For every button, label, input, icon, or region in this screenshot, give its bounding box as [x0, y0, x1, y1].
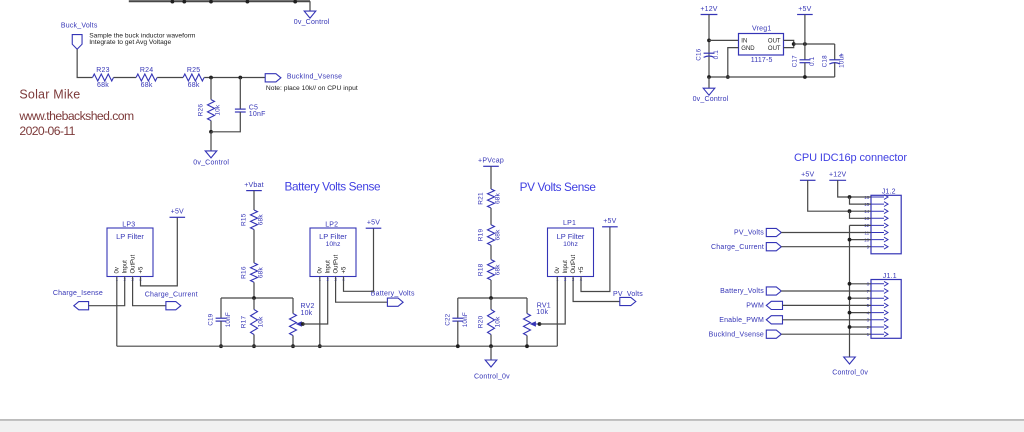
RV1 wiper arrow [531, 322, 540, 326]
wire +12V down to rail [708, 15, 710, 78]
svg-text:68k: 68k [188, 82, 200, 89]
wire LP3 output to Charge_Current port [133, 277, 166, 306]
svg-text:Solar Mike: Solar Mike [19, 88, 80, 102]
wire ground bus pin12 [850, 224, 872, 226]
wire C22 to rail [457, 321, 459, 346]
svg-text:OUT: OUT [768, 39, 781, 45]
svg-text:Enable_PWM: Enable_PWM [719, 317, 764, 324]
wire LP2 output to Battery_Volts port [336, 277, 388, 303]
wire R20 top [490, 298, 492, 310]
svg-text:Charge_Current: Charge_Current [711, 244, 764, 251]
wire node to R26 [210, 78, 212, 100]
junction C16/rail [707, 75, 711, 79]
ground Control_0v (connector bus) [844, 357, 856, 364]
wire +PVcap to R21 [490, 166, 492, 189]
svg-text:C17: C17 [792, 55, 799, 67]
wire top bus (cropped at top edge) [129, 0, 310, 2]
junction RV1/rail [525, 344, 529, 348]
wire branch to pin13 [850, 211, 872, 218]
svg-text:0v: 0v [318, 267, 324, 273]
capacitor C16 0.1 [704, 52, 715, 54]
wire R17 to rail [253, 335, 255, 347]
svg-text:0.1: 0.1 [713, 50, 720, 60]
svg-text:LP1: LP1 [563, 220, 576, 227]
wire LP2 0v pin to rail [319, 277, 321, 347]
svg-text:Vreg1: Vreg1 [752, 26, 771, 33]
wire regulator ground rail [709, 76, 835, 78]
wire R24-R25 [157, 77, 183, 79]
capacitor C18 10uf electrolytic [829, 59, 840, 61]
junction bus pin8 [848, 282, 852, 286]
junction C17/rail [803, 75, 807, 79]
svg-text:10k: 10k [536, 309, 548, 316]
svg-text:C22: C22 [444, 313, 451, 325]
svg-text:R19: R19 [477, 229, 484, 242]
svg-text:OutPut: OutPut [571, 254, 577, 273]
wire PV_Volts to pin11 [781, 232, 871, 234]
wire C5 bottom [211, 112, 240, 132]
wire wiper to LP2 input [303, 277, 328, 325]
wire GND pin to rail [728, 48, 739, 77]
resistor R20 10k [488, 310, 495, 335]
wire RV1 top [526, 298, 528, 314]
ground 0v_Control (R26/C5) [205, 151, 217, 158]
wire C17 to rail [804, 63, 806, 77]
junction dots on top bus [171, 0, 175, 4]
svg-text:10k: 10k [215, 104, 222, 116]
wire Buck_Volts down and right to R23 [77, 49, 92, 77]
svg-text:+5: +5 [579, 266, 585, 274]
scrollbar track [0, 421, 1024, 432]
wire +Vbat to R15 [253, 191, 255, 210]
junction R20/rail [489, 344, 493, 348]
junction +12V/IN [707, 39, 711, 43]
wire R25 to BuckInd_Vsense port [204, 77, 265, 79]
connector J1.1 (IDC16 lower half, pins 8-1) [871, 280, 901, 339]
trimpot RV2 10k [290, 314, 297, 336]
wire main ground rail [117, 345, 558, 347]
wire C5 top [239, 78, 241, 110]
svg-text:OutPut: OutPut [130, 254, 136, 273]
resistor R19 68k [488, 225, 495, 245]
svg-text:LP Filter: LP Filter [557, 232, 585, 241]
svg-text:10hz: 10hz [563, 241, 578, 248]
capacitor C22 10nF [452, 317, 463, 319]
wire wiper to LP1 input [540, 277, 566, 325]
svg-text:R20: R20 [477, 316, 484, 329]
RV2 wiper arrow [297, 322, 303, 326]
wire OUT pins join [784, 40, 794, 47]
trimpot RV1 10k [524, 314, 531, 336]
svg-text:68k: 68k [141, 82, 153, 89]
wire C22 top [457, 298, 459, 318]
svg-text:BuckInd_Vsense: BuckInd_Vsense [709, 331, 764, 338]
svg-text:0.1: 0.1 [809, 56, 816, 66]
filter module LP3 (LP Filter) [107, 228, 153, 277]
svg-text:PV Volts Sense: PV Volts Sense [520, 180, 597, 194]
wire bus to pin8 [850, 283, 872, 285]
svg-text:+12V: +12V [700, 6, 717, 13]
svg-text:+5: +5 [341, 266, 347, 274]
svg-text:68k: 68k [97, 82, 109, 89]
svg-text:Buck_Volts: Buck_Volts [61, 23, 98, 30]
junction LP2 0v/rail [318, 344, 322, 348]
svg-text:IN: IN [741, 39, 747, 45]
svg-text:OutPut: OutPut [333, 254, 339, 273]
wire C18 top [834, 44, 836, 60]
svg-text:Integrate to get Avg Voltage: Integrate to get Avg Voltage [89, 39, 171, 46]
svg-text:0v_Control: 0v_Control [193, 159, 229, 166]
resistor R16 68k [251, 263, 258, 282]
svg-text:0v_Control: 0v_Control [294, 19, 330, 26]
port BuckInd_Vsense [265, 74, 281, 82]
wire rail ground drop [490, 346, 492, 360]
wire BuckInd_Vsense to pin1 [781, 333, 871, 335]
wire RV2 top [292, 298, 294, 314]
svg-text:Input: Input [563, 260, 569, 274]
wire from top bus down to ground [309, 1, 311, 11]
junction dot R26/C5 bottom [209, 130, 213, 134]
svg-text:10k: 10k [495, 316, 502, 328]
svg-text:C18: C18 [821, 55, 828, 67]
svg-text:+5V: +5V [367, 220, 380, 227]
svg-text:0v: 0v [115, 267, 121, 273]
svg-text:J1.2: J1.2 [882, 189, 896, 196]
wire bus to pin6 [850, 297, 872, 299]
wire LP3 0v pin to ground rail start [116, 277, 118, 347]
junction GND/rail [726, 75, 730, 79]
svg-text:C19: C19 [208, 313, 215, 325]
svg-text:LP2: LP2 [325, 221, 338, 228]
resistor R18 68k [488, 260, 495, 280]
wire LP1 +5 pin [581, 227, 610, 292]
ground 0v_Control (vreg) [703, 88, 715, 95]
svg-text:C16: C16 [696, 48, 703, 60]
wire R20 to rail [490, 335, 492, 347]
svg-text:R24: R24 [140, 67, 153, 74]
svg-text:1117-5: 1117-5 [751, 57, 773, 64]
svg-text:+: + [840, 52, 844, 59]
wire PWM to pin5 [783, 304, 872, 306]
resistor R23 68k [93, 74, 114, 81]
wire LP1 0v pin joins rail end [556, 277, 558, 347]
junction bus pin2 [848, 325, 852, 329]
svg-text:R26: R26 [197, 104, 204, 117]
wire OUT to +5V and C18 [794, 43, 835, 45]
junction RV1 wiper [538, 322, 542, 326]
junction RV2/rail [291, 344, 295, 348]
svg-text:68k: 68k [495, 192, 502, 204]
svg-text:10hz: 10hz [326, 241, 341, 248]
wire C19 to rail [220, 321, 222, 346]
capacitor C19 10nF [216, 317, 227, 319]
wire LP1 output to PV_Volts port [573, 277, 620, 302]
wire bus to pin10 [850, 239, 872, 241]
wire Charge_Current to pin9 [781, 246, 871, 248]
svg-text:68k: 68k [495, 229, 502, 241]
wire rail to ground symbol [708, 77, 710, 88]
wire C19 top [220, 298, 222, 318]
junction OUT join [792, 42, 796, 46]
svg-text:LP3: LP3 [122, 221, 135, 228]
node wire PV divider [458, 297, 527, 299]
wire R26 to bottom node [210, 121, 212, 132]
junction bus pin10 [848, 238, 852, 242]
resistor R25 68k [183, 74, 204, 81]
filter module LP2 (LP Filter 10hz) [310, 228, 356, 277]
svg-text:OUT: OUT [768, 46, 781, 52]
junction PV node [489, 296, 493, 300]
svg-text:R15: R15 [240, 213, 247, 226]
svg-text:0v_Control: 0v_Control [693, 96, 729, 103]
svg-text:Control_0v: Control_0v [832, 370, 868, 377]
ground Control_0v (rail) [485, 360, 497, 367]
junction C19/rail [219, 344, 223, 348]
wire Enable_PWM to pin3 [783, 319, 872, 321]
svg-text:PWM: PWM [746, 303, 764, 310]
wire Battery_Volts to pin7 [781, 290, 871, 292]
junction +5V branch [848, 209, 852, 213]
resistor R17 10k [251, 310, 258, 335]
filter module LP1 (LP Filter 10hz) [548, 228, 594, 277]
connector J1.2 (IDC16 upper half, pins 16-9) [871, 195, 901, 254]
svg-text:Control_0v: Control_0v [474, 373, 510, 380]
wire RV2 to rail [292, 336, 294, 347]
svg-text:LP Filter: LP Filter [116, 232, 144, 241]
svg-text:PV_Volts: PV_Volts [734, 230, 764, 237]
wire R17 top [253, 298, 255, 310]
wire R18 to node [490, 280, 492, 298]
wire R15-R16 [253, 230, 255, 263]
junction bus pin4 [848, 311, 852, 315]
svg-text:10k: 10k [301, 310, 313, 317]
wire bus to pin4 [850, 312, 872, 314]
wire R21-R19 [490, 208, 492, 225]
svg-text:R21: R21 [477, 192, 484, 205]
svg-text:+5V: +5V [801, 172, 814, 179]
junction bus pin6 [848, 296, 852, 300]
svg-text:Battery_Volts: Battery_Volts [371, 291, 415, 298]
svg-text:+5V: +5V [171, 209, 184, 216]
svg-text:Input: Input [326, 260, 332, 274]
resistor R26 10k [208, 100, 215, 121]
svg-text:10nF: 10nF [249, 111, 266, 118]
resistor R15 68k [251, 210, 258, 230]
svg-text:10nF: 10nF [225, 312, 232, 327]
resistor R24 68k [136, 74, 157, 81]
svg-text:68k: 68k [258, 214, 265, 226]
svg-text:10nF: 10nF [462, 312, 469, 327]
svg-text:LP Filter: LP Filter [319, 232, 347, 241]
junction +12V branch [848, 195, 852, 199]
svg-text:J1.1: J1.1 [883, 273, 897, 280]
svg-text:Charge_Isense: Charge_Isense [53, 290, 103, 297]
svg-text:+Vbat: +Vbat [244, 182, 264, 189]
svg-text:R18: R18 [477, 263, 484, 276]
svg-text:R16: R16 [240, 266, 247, 279]
svg-text:+5V: +5V [798, 6, 811, 13]
capacitor C17 0.1 [800, 59, 811, 61]
wire R23-R24 [114, 77, 137, 79]
svg-text:BuckInd_Vsense: BuckInd_Vsense [287, 74, 342, 81]
junction OUT/+5V [803, 42, 807, 46]
svg-text:+5: +5 [138, 266, 144, 274]
svg-text:2020-06-11: 2020-06-11 [19, 124, 75, 138]
svg-text:10k: 10k [258, 316, 265, 328]
wire RV1 to rail [526, 336, 528, 347]
svg-text:Battery Volts Sense: Battery Volts Sense [285, 180, 382, 194]
svg-text:R23: R23 [96, 67, 109, 74]
wire LP3 +5 pin [141, 217, 178, 286]
svg-text:Charge_Current: Charge_Current [145, 291, 198, 298]
node wire battery divider [221, 297, 293, 299]
wire bus to pin2 [850, 326, 872, 328]
resistor R21 68k [488, 189, 495, 208]
wire C18 to rail [834, 63, 836, 77]
svg-text:GND: GND [741, 46, 755, 52]
ground 0v_Control (top) [304, 11, 316, 18]
svg-text:Note: place 10k// on CPU input: Note: place 10k// on CPU input [266, 85, 358, 92]
wire ground bus vertical [849, 225, 851, 357]
wire branch to pin15 [850, 197, 872, 204]
svg-text:Battery_Volts: Battery_Volts [720, 288, 764, 295]
wire Charge_Isense to LP3 input [89, 277, 125, 306]
junction node R26 branch [209, 76, 213, 80]
junction battery node [252, 296, 256, 300]
svg-text:68k: 68k [495, 264, 502, 276]
svg-text:R17: R17 [240, 316, 247, 329]
scrollbar divider line [0, 419, 1024, 421]
wire LP2 +5 pin [344, 228, 374, 291]
wire +5V to pin14 [808, 180, 871, 211]
wire +5V down [804, 15, 806, 60]
wire to ground [210, 132, 212, 151]
svg-text:68k: 68k [258, 267, 265, 279]
svg-text:Input: Input [123, 260, 129, 274]
junction node C5 branch [238, 76, 242, 80]
svg-text:CPU IDC16p connector: CPU IDC16p connector [794, 152, 907, 164]
regulator Vreg1 1117-5 [739, 34, 784, 56]
svg-text:R25: R25 [187, 67, 200, 74]
wire R16 to node [253, 282, 255, 298]
svg-text:www.thebackshed.com: www.thebackshed.com [18, 109, 134, 123]
wire R19-R18 [490, 245, 492, 259]
wire +12V to pin16 [838, 180, 871, 197]
capacitor C5 10nF [235, 108, 246, 110]
svg-text:0v: 0v [555, 267, 561, 273]
svg-text:+PVcap: +PVcap [478, 158, 504, 165]
junction R17/rail [252, 344, 256, 348]
wire IN pin [709, 39, 739, 41]
svg-text:+5V: +5V [603, 218, 616, 225]
svg-text:+12V: +12V [829, 172, 846, 179]
junction RV2 wiper [301, 322, 305, 326]
svg-text:PV_Volts: PV_Volts [613, 291, 643, 298]
junction C22/rail [456, 344, 460, 348]
